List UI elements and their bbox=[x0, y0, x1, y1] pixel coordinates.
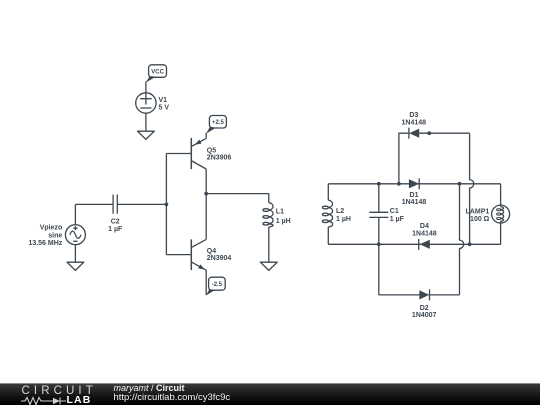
diode D2 bbox=[412, 289, 437, 319]
svg-text:sine: sine bbox=[48, 232, 62, 239]
svg-text:D3: D3 bbox=[409, 112, 418, 119]
node on D3 wire bbox=[427, 131, 431, 135]
node D3 branch left bbox=[397, 182, 401, 186]
svg-text:100 Ω: 100 Ω bbox=[470, 216, 490, 223]
diode D1 bbox=[402, 178, 427, 206]
node input junction bbox=[165, 203, 169, 207]
ground (Vpiezo) bbox=[67, 262, 84, 270]
wire L2 bottom lead bbox=[327, 227, 329, 244]
wire VCC to V1 bbox=[145, 82, 147, 93]
svg-text:LAMP1: LAMP1 bbox=[466, 208, 490, 215]
svg-text:D1: D1 bbox=[410, 192, 419, 199]
wire Vpiezo down bbox=[74, 245, 76, 263]
inductor L1 bbox=[263, 203, 291, 227]
svg-text:VCC: VCC bbox=[151, 70, 164, 76]
svg-text:D4: D4 bbox=[420, 223, 429, 230]
wire D3 left riser bbox=[399, 133, 409, 184]
node C1 bottom bbox=[377, 242, 381, 246]
svg-text:1 µH: 1 µH bbox=[276, 218, 291, 225]
footer bar bbox=[0, 383, 540, 405]
net flag VCC bbox=[146, 65, 167, 83]
inductor L2 bbox=[322, 200, 351, 227]
wire Q4 emitter bbox=[205, 270, 207, 295]
wire C2 to base bus bbox=[117, 203, 166, 205]
svg-text:1N4148: 1N4148 bbox=[402, 199, 427, 206]
svg-text:1N4007: 1N4007 bbox=[412, 312, 437, 319]
svg-text:1 µF: 1 µF bbox=[390, 216, 405, 223]
wire resonant top bbox=[328, 183, 500, 185]
voltage source V1 bbox=[136, 93, 170, 113]
node C1 top bbox=[377, 182, 381, 186]
wire Vpiezo up bbox=[74, 204, 76, 224]
svg-text:2N3904: 2N3904 bbox=[207, 255, 232, 262]
wire Q4 collector to node bbox=[205, 194, 207, 240]
wire L2 top lead bbox=[327, 184, 329, 200]
diode D3 bbox=[402, 112, 427, 139]
wire D2 left riser bbox=[378, 244, 380, 295]
node collectors bbox=[204, 192, 208, 196]
ground (L1) bbox=[260, 262, 277, 270]
svg-text:C2: C2 bbox=[111, 218, 120, 225]
footer url bbox=[114, 392, 231, 403]
wire base bus bbox=[165, 154, 167, 255]
wire D2 right riser with hop bbox=[460, 184, 464, 295]
svg-text:-2.5: -2.5 bbox=[212, 282, 223, 288]
transistor Q5 bbox=[166, 138, 231, 169]
wire L1 bottom bbox=[268, 227, 270, 262]
svg-text:1N4148: 1N4148 bbox=[402, 119, 427, 126]
svg-text:Q4: Q4 bbox=[207, 248, 216, 255]
wire D2 anode lead bbox=[379, 294, 420, 296]
footer title bbox=[114, 383, 185, 393]
svg-text:1 µH: 1 µH bbox=[336, 216, 351, 223]
wire L1 top bbox=[268, 194, 270, 203]
wire V1 to ground bbox=[145, 113, 147, 131]
svg-text:Q5: Q5 bbox=[207, 147, 216, 154]
wire D2 cathode lead bbox=[430, 294, 460, 296]
wire node to L1 bbox=[206, 193, 269, 195]
svg-text:C1: C1 bbox=[390, 208, 399, 215]
capacitor C2 bbox=[108, 195, 123, 234]
diode D4 bbox=[412, 223, 437, 250]
svg-text:1 µF: 1 µF bbox=[108, 226, 123, 233]
svg-text:+2.5: +2.5 bbox=[212, 120, 225, 126]
wire Q5 collector to node bbox=[205, 169, 207, 194]
svg-text:D2: D2 bbox=[420, 305, 429, 312]
net flag +2.5 bbox=[206, 116, 226, 134]
svg-text:L1: L1 bbox=[276, 209, 284, 216]
logo text LAB bbox=[67, 394, 92, 405]
svg-text:L2: L2 bbox=[336, 208, 344, 215]
net flag -2.5 bbox=[206, 277, 225, 295]
svg-text:2N3906: 2N3906 bbox=[207, 154, 232, 161]
svg-text:1N4148: 1N4148 bbox=[412, 231, 437, 238]
transistor Q4 bbox=[166, 239, 231, 270]
node D2 branch top bbox=[458, 182, 462, 186]
wire D3 right riser with hop bbox=[470, 133, 474, 244]
wire D3 to right corner bbox=[419, 132, 469, 134]
svg-text:5 V: 5 V bbox=[159, 105, 170, 112]
svg-text:V1: V1 bbox=[159, 97, 168, 104]
lamp LAMP1 bbox=[466, 184, 510, 245]
wire resonant bottom bbox=[328, 243, 500, 245]
svg-text:Vpiezo: Vpiezo bbox=[40, 225, 63, 232]
wire Q5 emitter bbox=[205, 133, 207, 139]
capacitor C1 bbox=[369, 184, 404, 245]
wire Vpiezo to C2 bbox=[75, 203, 113, 205]
node D3 riser at bottom wire bbox=[468, 242, 472, 246]
ground (V1) bbox=[138, 131, 155, 139]
voltage source Vpiezo bbox=[28, 225, 85, 247]
svg-text:13.56 MHz: 13.56 MHz bbox=[28, 240, 62, 247]
logo text CIRCUIT bbox=[22, 385, 97, 397]
logo resistor-diode squiggle bbox=[20, 396, 70, 405]
